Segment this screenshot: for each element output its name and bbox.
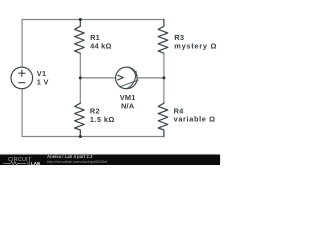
node junction bottom rail / R2 xyxy=(79,135,82,138)
wire left column bottom (V1 to bottom rail) xyxy=(21,89,23,137)
resistor R4 xyxy=(158,103,168,136)
wire R2 top lead xyxy=(79,78,81,103)
wire left column top (top rail to V1) xyxy=(21,20,23,68)
node junction middle rail / R1-R2 xyxy=(79,76,82,79)
svg-text:LAB: LAB xyxy=(31,161,41,166)
voltage source V1 xyxy=(11,67,33,89)
wire top rail xyxy=(22,19,164,21)
svg-text:variable Ω: variable Ω xyxy=(174,115,216,124)
node junction middle rail / R3-R4 xyxy=(162,76,165,79)
wire R3 bottom lead xyxy=(163,53,165,78)
svg-text:44 kΩ: 44 kΩ xyxy=(90,41,112,50)
CircuitLab logo xyxy=(1,155,47,166)
resistor R3 xyxy=(158,20,168,54)
footer credit line 1 xyxy=(47,154,92,159)
wire R1 bottom lead xyxy=(79,53,81,78)
node junction top rail / R1 xyxy=(79,18,82,21)
svg-text:1 V: 1 V xyxy=(37,77,49,86)
resistor R2 xyxy=(75,103,85,136)
wire R4 top lead xyxy=(163,78,165,103)
wire middle rail (through VM1) xyxy=(80,77,164,79)
svg-text:1.5 kΩ: 1.5 kΩ xyxy=(90,115,115,124)
footer watermark bar xyxy=(0,155,220,165)
svg-text:N/A: N/A xyxy=(121,102,135,111)
svg-text:mystery Ω: mystery Ω xyxy=(174,41,217,50)
wire bottom rail xyxy=(22,136,164,138)
resistor R1 xyxy=(75,20,85,54)
footer credit line 2 xyxy=(47,159,107,164)
voltmeter VM1 xyxy=(116,67,138,89)
